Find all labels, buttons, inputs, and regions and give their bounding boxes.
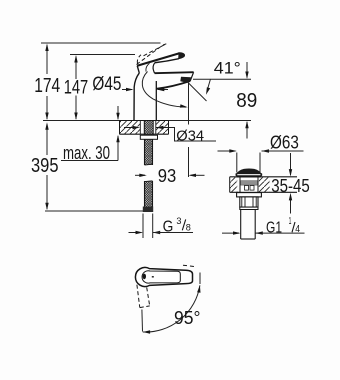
svg-text:95°: 95° xyxy=(174,307,201,328)
drain slab xyxy=(230,177,297,193)
G 3/8 dim xyxy=(129,232,142,234)
extension line deck top left xyxy=(43,120,120,122)
lever neck right xyxy=(153,63,155,73)
svg-text:1: 1 xyxy=(289,215,292,227)
spout top edge xyxy=(155,72,194,73)
label G 3/8 xyxy=(163,216,191,236)
drain tailpipe xyxy=(241,210,256,240)
dim 63 line xyxy=(218,150,236,152)
lever neck inner xyxy=(146,63,150,71)
extension line top (lever raised level) xyxy=(41,42,161,44)
svg-text:147: 147 xyxy=(64,77,88,99)
svg-text:Ø63: Ø63 xyxy=(270,133,299,153)
svg-text:G: G xyxy=(163,219,174,236)
svg-text:G1: G1 xyxy=(266,219,282,236)
spout axis diagonal xyxy=(187,82,207,102)
drain nut rim xyxy=(240,207,258,209)
svg-text:93: 93 xyxy=(158,166,177,186)
extension line aerator vertical xyxy=(188,83,190,125)
arc 41 degrees sweep xyxy=(142,72,186,108)
label G1 1/4 xyxy=(266,215,300,237)
svg-text:Ø34: Ø34 xyxy=(176,127,204,144)
lever tip dark xyxy=(179,53,185,59)
dimension 395 line xyxy=(46,124,48,209)
svg-text:Ø45: Ø45 xyxy=(92,74,121,95)
max30 leader xyxy=(61,160,118,162)
spout underside xyxy=(156,81,190,89)
ext lines 63 xyxy=(236,153,238,173)
aerator dark tip xyxy=(180,77,191,82)
leader diameter34 xyxy=(168,128,217,142)
svg-text:174: 174 xyxy=(34,74,60,97)
svg-text:max. 30: max. 30 xyxy=(63,143,110,163)
svg-text:3: 3 xyxy=(176,216,181,227)
handle rotated dashed xyxy=(137,285,150,308)
body right edge xyxy=(155,81,157,121)
extension line lever level xyxy=(70,54,135,56)
svg-text:395: 395 xyxy=(31,154,59,177)
leader 41 with arrow xyxy=(207,79,211,91)
extension line deck top right to 89 dim xyxy=(169,120,252,122)
dimension 35-45 arrows xyxy=(290,153,292,175)
dim arrows 45 xyxy=(122,89,132,91)
extension line hose end xyxy=(45,210,144,212)
svg-text:89: 89 xyxy=(236,90,257,112)
svg-text:8: 8 xyxy=(186,223,191,234)
drain nut xyxy=(240,197,258,207)
shank washer xyxy=(140,135,157,139)
faucet body left edge xyxy=(134,73,139,121)
deck slab main xyxy=(120,121,169,135)
G 3/8 ext lines xyxy=(142,214,144,239)
lever bottom edge xyxy=(155,59,179,63)
dimension G1 1/4 xyxy=(222,232,239,234)
hose end nut xyxy=(143,207,153,213)
drain body in deck xyxy=(240,177,258,192)
dimension 174 line xyxy=(46,45,48,119)
dimension 147 line xyxy=(75,57,77,120)
drain locknut washer xyxy=(237,193,262,197)
svg-text:4: 4 xyxy=(295,223,300,235)
supply hose lower xyxy=(145,181,153,207)
svg-text:41°: 41° xyxy=(214,60,241,78)
handle axis extension xyxy=(141,310,144,332)
lever front edge xyxy=(137,66,139,73)
arc 95 degrees xyxy=(143,285,200,332)
dimension 93 xyxy=(135,174,145,176)
handle top view solid xyxy=(135,267,192,286)
dimension 89 xyxy=(246,62,248,78)
faucet shank threaded xyxy=(144,121,153,135)
lever top edge xyxy=(137,53,179,65)
aerator reference line xyxy=(193,78,251,80)
dim arrows diameter34 at hole xyxy=(124,127,138,129)
tick at handle tip xyxy=(199,273,201,285)
lever raised dashed xyxy=(137,44,167,65)
spout tip face xyxy=(190,72,193,81)
handle dashes top right xyxy=(183,265,197,267)
drain flange dome xyxy=(236,169,261,175)
supply hose upper xyxy=(145,139,153,165)
